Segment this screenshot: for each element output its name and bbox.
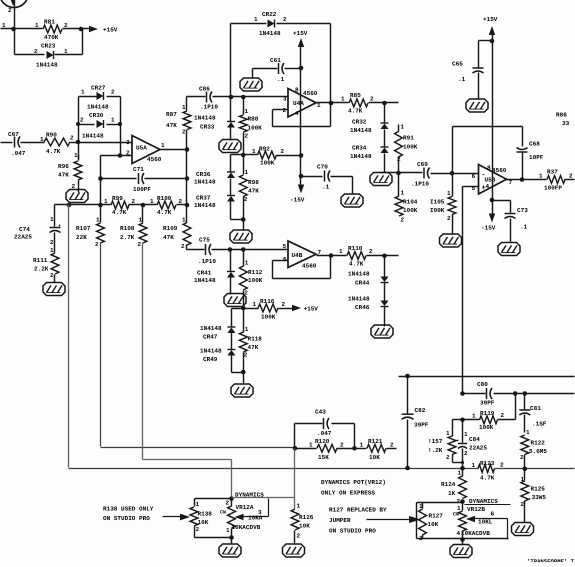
- svg-text:2: 2: [8, 7, 12, 14]
- svg-text:R85: R85: [350, 92, 361, 99]
- resistor R125: [521, 481, 529, 501]
- wire CR33 stub: [230, 97, 232, 122]
- svg-text:22A25: 22A25: [14, 234, 32, 241]
- diode CR30: [97, 120, 104, 128]
- resistor R81: [43, 25, 62, 33]
- svg-text:R98: R98: [248, 179, 259, 186]
- svg-text:2: 2: [70, 135, 74, 142]
- wire node to ground: [243, 220, 245, 231]
- capacitor C84: [462, 420, 464, 443]
- wire R96 stub: [78, 143, 80, 159]
- svg-text:1: 1: [81, 89, 85, 96]
- wire +15V rail right: [492, 35, 494, 201]
- svg-text:.1P10: .1P10: [200, 104, 218, 111]
- wire CR30 mid: [79, 124, 95, 126]
- wire R107 bus down: [100, 243, 102, 447]
- svg-text:4.7K: 4.7K: [348, 108, 363, 115]
- node dot C71 right: [185, 176, 190, 181]
- wire R92 line: [244, 154, 258, 156]
- op-amp U5B: [479, 165, 507, 195]
- svg-text:2: 2: [282, 301, 286, 308]
- svg-text:2: 2: [283, 107, 287, 114]
- resistor R90: [44, 138, 70, 146]
- resistor R120: [295, 448, 317, 450]
- svg-text:R86: R86: [556, 112, 567, 119]
- capacitor C81: [524, 394, 526, 410]
- wire CR33 to ground: [230, 128, 232, 141]
- svg-text:C71: C71: [133, 166, 144, 173]
- svg-text:R119: R119: [480, 410, 495, 417]
- svg-text:1: 1: [74, 152, 78, 159]
- diode CR47: [227, 326, 235, 328]
- node dot C81 top: [523, 391, 528, 396]
- svg-text:4560: 4560: [303, 90, 318, 97]
- node dot A2: [79, 27, 84, 32]
- resistor R121: [355, 448, 367, 450]
- svg-text:.33W5: .33W5: [528, 494, 546, 501]
- svg-text:1: 1: [245, 108, 249, 115]
- svg-text:1: 1: [539, 173, 543, 180]
- node dot R124 bottom: [460, 499, 465, 504]
- svg-text:R92: R92: [259, 146, 270, 153]
- node dot C65 tap: [490, 39, 495, 44]
- ground under R98: [230, 230, 252, 243]
- svg-text:1N4148: 1N4148: [194, 277, 216, 284]
- diode CR36: [227, 171, 235, 173]
- capacitor C86: [187, 96, 206, 98]
- svg-text:R99: R99: [112, 195, 123, 202]
- svg-text:1K: 1K: [448, 490, 456, 497]
- svg-text:4.7K: 4.7K: [112, 209, 127, 216]
- potentiometer VR12A: [231, 499, 233, 507]
- svg-text:1N4148: 1N4148: [87, 104, 109, 111]
- node dot C82 top: [405, 374, 410, 379]
- svg-text:47K: 47K: [248, 344, 259, 351]
- wire U4B output: [317, 255, 347, 257]
- wire input to U5A pin3: [79, 142, 133, 144]
- wire C84 bottom: [462, 449, 464, 469]
- svg-text:R88: R88: [248, 116, 259, 123]
- svg-text:R100: R100: [157, 195, 172, 202]
- svg-text:1N4148: 1N4148: [350, 153, 372, 160]
- svg-text:CR30: CR30: [89, 112, 104, 119]
- node dot rail-69: [67, 203, 72, 208]
- svg-text:2: 2: [34, 48, 38, 55]
- svg-text:C75: C75: [199, 237, 210, 244]
- svg-text:CR49: CR49: [203, 356, 218, 363]
- svg-text:1: 1: [472, 413, 476, 420]
- resistor R104: [398, 173, 400, 197]
- svg-text:33: 33: [562, 120, 570, 127]
- wire C68 box: [452, 127, 454, 174]
- wire U4A pin2 loop bottom: [273, 126, 331, 128]
- svg-text:2: 2: [245, 133, 249, 140]
- wire R108 bus to dynamics: [231, 460, 233, 499]
- node dot U4B out: [329, 253, 334, 258]
- svg-text:39PF: 39PF: [414, 422, 429, 429]
- svg-text:1: 1: [401, 124, 405, 131]
- wiper VR12B: [466, 516, 475, 522]
- svg-text:100K: 100K: [261, 314, 276, 321]
- ground under C65: [466, 99, 488, 112]
- node dot input: [76, 140, 81, 145]
- svg-text:1N4148: 1N4148: [194, 115, 216, 122]
- node dot R119 left: [460, 418, 465, 423]
- svg-text:1N4148: 1N4148: [348, 271, 370, 278]
- svg-text:47K: 47K: [166, 122, 177, 129]
- svg-text:DYNAMICS: DYNAMICS: [235, 491, 264, 498]
- svg-text:C69: C69: [417, 161, 428, 168]
- wire R98 to node: [243, 197, 245, 220]
- svg-text:2: 2: [244, 196, 248, 203]
- wire R137 branch: [453, 419, 463, 421]
- svg-text:1: 1: [360, 442, 364, 449]
- node dot R121 left: [352, 446, 357, 451]
- svg-text:1: 1: [50, 216, 54, 223]
- svg-text:3: 3: [126, 139, 130, 146]
- svg-text:R118: R118: [248, 336, 263, 343]
- wire C65 to ground: [478, 73, 480, 99]
- wire VR12A bottom node: [231, 529, 233, 545]
- -15V arrow right: [492, 201, 494, 215]
- ground under C70: [341, 194, 363, 207]
- node dot C69 right: [450, 171, 455, 176]
- svg-text:1: 1: [182, 104, 186, 111]
- wire CR44-CR46: [384, 283, 386, 301]
- svg-text:1N4148: 1N4148: [36, 62, 58, 69]
- svg-text:2: 2: [283, 16, 287, 23]
- wire dynamics label net: [232, 497, 295, 499]
- svg-text:1: 1: [96, 217, 100, 224]
- svg-text:1: 1: [252, 148, 256, 155]
- resistor R96: [78, 155, 80, 161]
- wire U5A pin2 feedback: [101, 155, 133, 157]
- svg-text:1: 1: [341, 96, 345, 103]
- resistor R99: [111, 201, 129, 209]
- svg-text:JUMPER: JUMPER: [329, 517, 351, 524]
- svg-text:10KACDVB: 10KACDVB: [232, 524, 261, 531]
- diode CR22: [268, 20, 275, 28]
- svg-text:10K: 10K: [198, 519, 209, 526]
- +15V arrow U4A: [298, 38, 304, 47]
- svg-text:4: 4: [295, 110, 299, 117]
- node dot U5A out: [185, 147, 190, 152]
- capacitor C61: [253, 68, 278, 70]
- ground under VR12B: [450, 545, 472, 558]
- svg-text:3: 3: [283, 96, 287, 103]
- svg-text:C86: C86: [199, 86, 210, 93]
- wire U5B pin5: [463, 186, 479, 188]
- svg-text:C81: C81: [530, 405, 541, 412]
- wire R87 to U5A out node: [186, 130, 188, 205]
- node dot A1: [11, 27, 16, 32]
- svg-text:6: 6: [491, 511, 495, 518]
- svg-text:R127 REPLACED BY: R127 REPLACED BY: [329, 507, 387, 514]
- resistor R111: [51, 253, 59, 274]
- svg-text:10KACDVB: 10KACDVB: [461, 530, 490, 537]
- svg-text:+15V: +15V: [483, 16, 498, 23]
- svg-text:!.2K: !.2K: [428, 447, 443, 454]
- svg-text:C65: C65: [452, 61, 463, 68]
- node dot CR32 top: [382, 101, 387, 106]
- wire CR34 to line: [384, 154, 386, 173]
- svg-text:C68: C68: [529, 141, 540, 148]
- svg-text:U4A: U4A: [293, 100, 304, 107]
- svg-text:.047: .047: [11, 150, 26, 157]
- wire R90 to node: [71, 142, 79, 144]
- svg-text:10KL: 10KL: [478, 519, 493, 526]
- svg-text:100K: 100K: [248, 125, 263, 132]
- wire R112 to node: [243, 291, 245, 309]
- capacitor C65: [479, 40, 493, 42]
- resistor R138: [194, 499, 196, 507]
- diode CR41: [227, 271, 235, 273]
- svg-text:2: 2: [244, 352, 248, 359]
- svg-text:2: 2: [501, 412, 505, 419]
- svg-text:.1: .1: [277, 76, 285, 83]
- wire CR32 stub: [384, 103, 386, 123]
- wire CR22 top: [231, 23, 267, 25]
- wire R126 column: [294, 449, 296, 509]
- svg-text:VR12B: VR12B: [467, 506, 485, 513]
- svg-text:2: 2: [457, 498, 461, 505]
- wire C70 to ground: [352, 177, 354, 195]
- svg-text:2: 2: [138, 241, 142, 248]
- svg-text:2: 2: [520, 454, 524, 461]
- svg-text:+15V: +15V: [293, 30, 308, 37]
- wire +15V rail U4A: [300, 47, 302, 187]
- arrow R127 note: [367, 519, 411, 521]
- wire R111 to ground: [54, 275, 56, 283]
- wire R98 stub: [243, 155, 245, 175]
- wire U4B feedback: [273, 260, 289, 262]
- wire R138 box bottom: [194, 527, 196, 538]
- wire R85 right: [369, 102, 399, 104]
- svg-text:2: 2: [447, 215, 451, 222]
- capacitor C73: [493, 200, 511, 202]
- svg-text:1N4148: 1N4148: [259, 30, 281, 37]
- svg-text:R37: R37: [547, 169, 558, 176]
- svg-text:ONLY ON EXPRESS: ONLY ON EXPRESS: [321, 490, 375, 497]
- svg-text:1: 1: [64, 48, 68, 55]
- wire R108 bus down: [142, 243, 144, 460]
- svg-text:100K: 100K: [403, 207, 418, 214]
- wire R109 corner: [187, 249, 205, 251]
- capacitor C75: [205, 244, 207, 255]
- svg-text:CW: CW: [220, 510, 226, 516]
- node dot U4A out: [329, 101, 334, 106]
- wire R88 stub: [243, 97, 245, 115]
- svg-text:4560: 4560: [492, 167, 507, 174]
- wire R126 to ground: [294, 531, 296, 545]
- ground under VR12A: [219, 544, 241, 557]
- svg-text:2: 2: [182, 129, 186, 136]
- node dot R116 left: [241, 306, 246, 311]
- svg-text:CW: CW: [453, 512, 459, 518]
- node dot VR12A bottom: [229, 535, 234, 540]
- svg-text:R127: R127: [429, 513, 444, 520]
- node dot R120 left: [293, 446, 298, 451]
- ground under R96: [66, 190, 88, 203]
- wire R125 to ground: [524, 501, 526, 523]
- resistor R98: [239, 175, 247, 197]
- svg-text:CR32: CR32: [352, 119, 367, 126]
- wire R107 bus corner right: [101, 447, 295, 449]
- svg-text:2: 2: [297, 533, 301, 540]
- svg-text:100K: 100K: [248, 277, 263, 284]
- resistor R37: [547, 176, 565, 184]
- wire R118 to node: [243, 353, 245, 373]
- svg-text:4: 4: [486, 183, 490, 190]
- svg-text:2: 2: [196, 526, 200, 533]
- svg-text:C67: C67: [8, 131, 19, 138]
- node dot C70 tap: [299, 174, 304, 179]
- svg-text:R125: R125: [531, 486, 546, 493]
- svg-text:U5A: U5A: [136, 145, 147, 152]
- svg-text:1: 1: [104, 198, 108, 205]
- svg-text:1: 1: [226, 527, 230, 534]
- wire mid bus y376: [399, 376, 575, 378]
- wire bottom bus y468: [69, 468, 479, 470]
- svg-text:CR47: CR47: [203, 334, 218, 341]
- svg-text:5.6M5: 5.6M5: [529, 448, 547, 455]
- diode CR32: [381, 122, 389, 124]
- svg-text:4.7K: 4.7K: [349, 261, 364, 268]
- resistor R108: [142, 205, 144, 223]
- node dot C61 tap: [299, 66, 304, 71]
- wire R92 to -15V rail: [277, 155, 301, 157]
- node dot 243-97: [241, 95, 246, 100]
- svg-text:.1SF: .1SF: [532, 421, 547, 428]
- wire CR49 to node: [231, 356, 233, 373]
- resistor R87: [183, 111, 191, 130]
- svg-text:CR22: CR22: [262, 11, 277, 18]
- +15V arrow mid: [292, 305, 301, 311]
- svg-text:1: 1: [254, 16, 258, 23]
- diode CR44: [381, 277, 389, 283]
- svg-text:100FP: 100FP: [544, 185, 562, 192]
- wire R99 rail: [55, 204, 111, 206]
- svg-text:2: 2: [181, 243, 185, 250]
- wire CR36-CR37: [230, 179, 232, 196]
- svg-text:1: 1: [447, 190, 451, 197]
- wire R116 to +15V: [279, 308, 293, 310]
- svg-text:10PF: 10PF: [529, 154, 544, 161]
- wire CR44 stub: [384, 256, 386, 277]
- wire CR41 to ground: [230, 278, 232, 295]
- -15V arrow U4A: [298, 185, 304, 194]
- svg-text:1N4148: 1N4148: [194, 179, 216, 186]
- wire transistor down: [14, 1, 16, 55]
- node dot VR12B bottom: [460, 537, 465, 542]
- svg-text:I105: I105: [430, 199, 445, 206]
- resistor I105: [452, 174, 454, 197]
- svg-text:C43: C43: [315, 409, 326, 416]
- resistor R112: [239, 266, 247, 290]
- wire R37 right edge: [565, 179, 575, 181]
- svg-text:CR27: CR27: [91, 85, 106, 92]
- resistor R127 with jumper: [416, 503, 418, 539]
- svg-text:R110: R110: [348, 245, 363, 252]
- ground under R125: [512, 523, 534, 536]
- svg-text:4: 4: [457, 530, 461, 537]
- ground under R111: [43, 283, 65, 296]
- svg-text:2: 2: [569, 173, 573, 180]
- wire R124 stub: [462, 469, 464, 477]
- svg-text:-: -: [482, 172, 486, 180]
- svg-text:1: 1: [253, 301, 257, 308]
- svg-text:39PF: 39PF: [480, 400, 495, 407]
- wire R137 bottom: [452, 455, 454, 463]
- wire U4A pin2 loop left: [272, 110, 274, 127]
- svg-text:47K: 47K: [163, 234, 174, 241]
- svg-text:1: 1: [40, 136, 44, 143]
- diode CR33: [227, 121, 235, 123]
- transistor Q (partial, top edge): [0, 0, 29, 8]
- svg-text:1N4148: 1N4148: [200, 348, 222, 355]
- wire C86 to U4A: [231, 96, 289, 98]
- diode CR46: [381, 301, 389, 307]
- wire C80 line: [463, 393, 486, 395]
- wire C82 to bus: [407, 420, 409, 469]
- svg-text:470K: 470K: [44, 34, 59, 41]
- resistor R85: [349, 99, 368, 107]
- svg-text:100K: 100K: [403, 144, 418, 151]
- svg-text:4.7K: 4.7K: [46, 148, 61, 155]
- svg-text:2.7K: 2.7K: [120, 234, 135, 241]
- capacitor C67: [14, 137, 16, 148]
- diode CR23: [47, 51, 54, 59]
- wire CR27 box right: [120, 97, 122, 156]
- node dot R92 left: [241, 153, 246, 158]
- svg-text:2: 2: [390, 442, 394, 449]
- svg-text:2.2K: 2.2K: [34, 266, 49, 273]
- node dot CR30 right: [118, 122, 122, 126]
- wire CR37 to node: [230, 202, 232, 220]
- wire CR22 left vert: [230, 24, 232, 97]
- node dot R92 tap: [299, 153, 304, 158]
- svg-text:1: 1: [401, 190, 405, 197]
- ground under CR46: [371, 325, 393, 338]
- node dot main 462: [460, 466, 465, 471]
- svg-text:2: 2: [50, 272, 54, 279]
- svg-text:CR46: CR46: [355, 304, 370, 311]
- svg-text:.1: .1: [458, 76, 466, 83]
- svg-text:1: 1: [446, 430, 450, 437]
- svg-text:8: 8: [295, 87, 299, 94]
- wire pin2 down: [100, 156, 102, 205]
- op-amp U5A: [132, 136, 160, 164]
- wire U4A output: [317, 102, 349, 104]
- wire CR32-CR34: [384, 130, 386, 147]
- svg-text:2: 2: [179, 198, 183, 205]
- svg-text:1: 1: [339, 248, 343, 255]
- wire I105 to ground: [452, 215, 454, 235]
- svg-text:C61: C61: [270, 57, 281, 64]
- svg-text:10K: 10K: [299, 523, 310, 530]
- svg-text:2: 2: [80, 117, 84, 124]
- svg-text:R126: R126: [299, 514, 314, 521]
- svg-text:.047: .047: [317, 430, 332, 437]
- svg-text:R111: R111: [33, 257, 48, 264]
- op-amp U4B: [288, 241, 316, 268]
- node dot C80 right: [513, 391, 518, 396]
- svg-text:22K: 22K: [76, 234, 87, 241]
- svg-text:1: 1: [297, 503, 301, 510]
- svg-text:U4B: U4B: [292, 252, 303, 259]
- svg-text:DYNAMICS POT(VR12): DYNAMICS POT(VR12): [321, 479, 386, 486]
- svg-text:R112: R112: [248, 269, 263, 276]
